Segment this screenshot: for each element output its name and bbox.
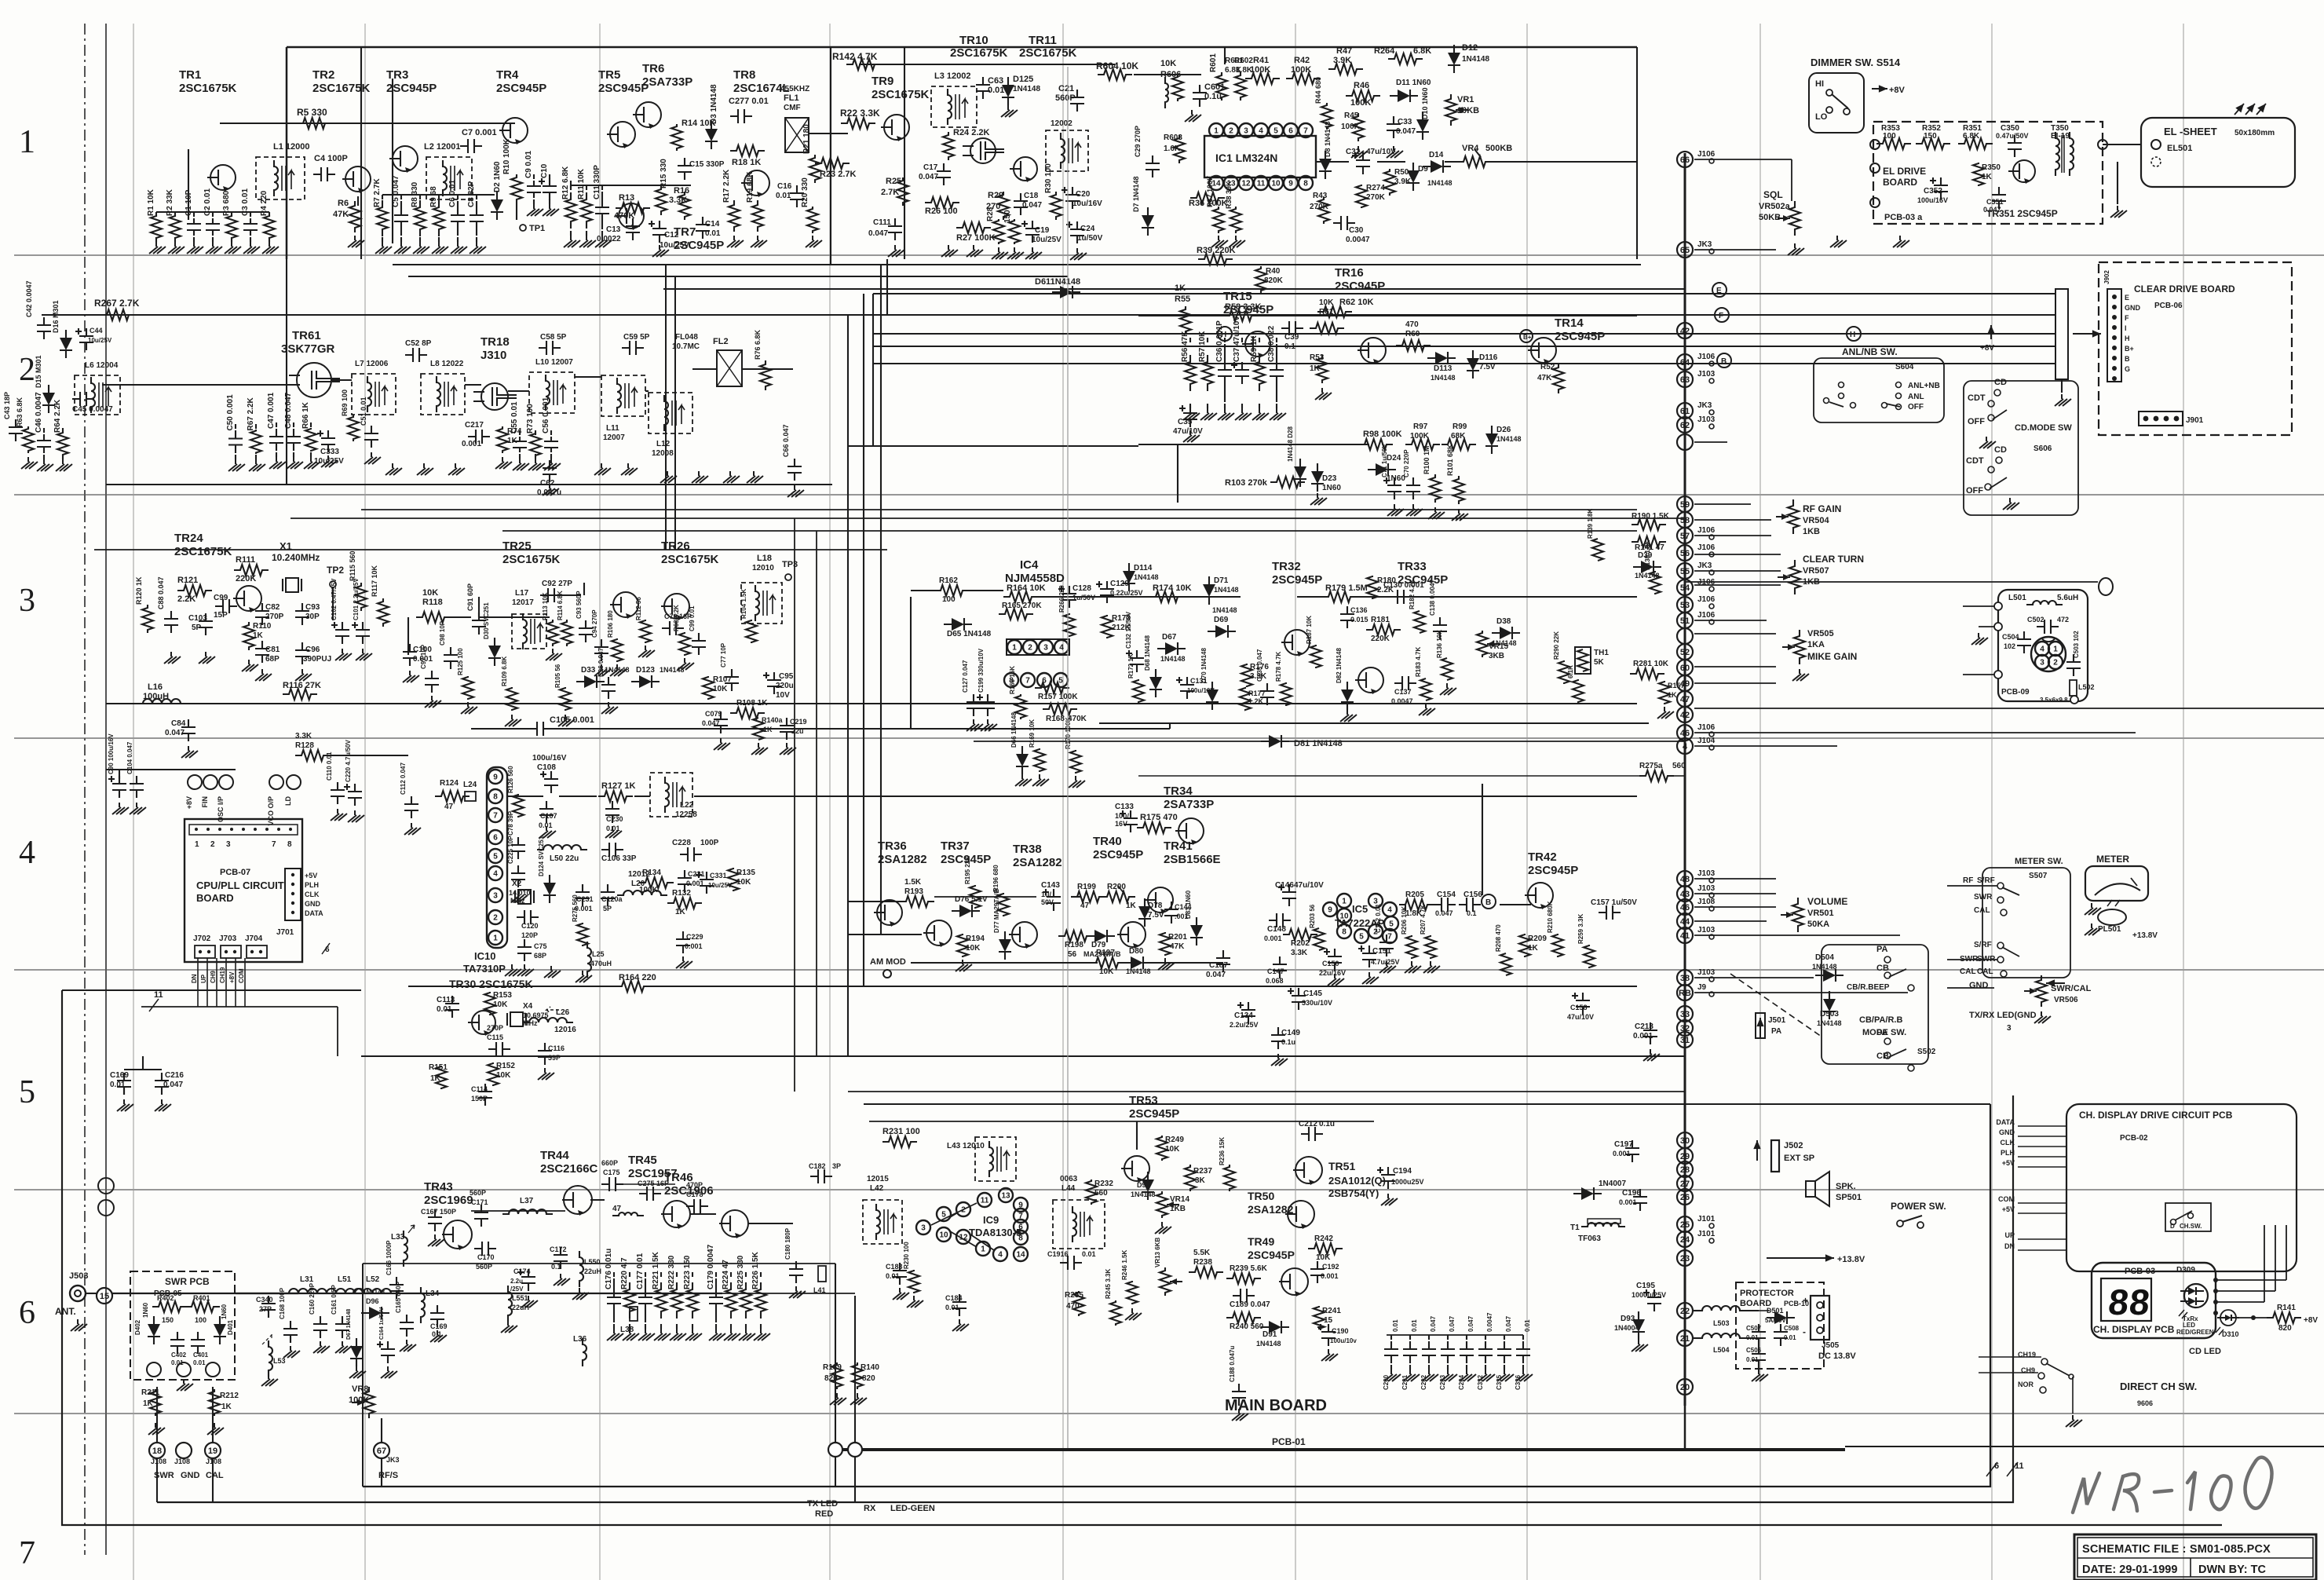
svg-text:L25: L25 (592, 950, 605, 958)
diode D81 (974, 735, 1685, 748)
svg-text:C188 0.047u: C188 0.047u (1229, 1346, 1236, 1382)
transistor TR6 (633, 62, 692, 129)
svg-text:R118: R118 (422, 598, 443, 607)
svg-text:2SC1675K: 2SC1675K (179, 82, 237, 95)
svg-text:+5V: +5V (305, 872, 317, 880)
svg-text:TR38: TR38 (1013, 843, 1042, 856)
zone digit 3 (19, 583, 35, 619)
svg-text:0.001: 0.001 (462, 440, 481, 448)
svg-text:R231 100: R231 100 (882, 1127, 920, 1136)
svg-text:C402: C402 (171, 1351, 187, 1359)
svg-text:R157 100K: R157 100K (1038, 693, 1078, 701)
label TR45b (0, 0, 1, 1)
svg-text:2.2K: 2.2K (177, 594, 195, 604)
svg-text:VR1: VR1 (1457, 95, 1474, 104)
resistor R139 820 (823, 1362, 846, 1405)
svg-text:88: 88 (2107, 1282, 2153, 1322)
svg-text:D70 1N4148: D70 1N4148 (1200, 648, 1208, 683)
resistor R44 (1314, 77, 1332, 130)
zone line (14, 737, 2324, 739)
resistor R602 1.8K (1234, 57, 1253, 101)
svg-text:C114: C114 (471, 1085, 488, 1093)
svg-text:1: 1 (493, 934, 498, 943)
resistor R225 (736, 1255, 755, 1340)
diode D504 (1812, 953, 1843, 982)
svg-text:6.8K: 6.8K (1413, 46, 1431, 56)
coil L2 (424, 142, 472, 199)
svg-text:R162: R162 (939, 576, 958, 585)
svg-text:1N4148: 1N4148 (1431, 374, 1456, 382)
svg-text:C32: C32 (1346, 148, 1361, 156)
diode D7 (1132, 176, 1154, 236)
svg-text:D504: D504 (1815, 953, 1834, 962)
svg-text:R153: R153 (493, 991, 512, 1000)
label PA (1876, 945, 1891, 963)
pot CLEAR TURN (1778, 554, 1864, 594)
svg-text:PLH: PLH (2001, 1149, 2015, 1157)
svg-text:R240 560: R240 560 (1230, 1322, 1264, 1331)
inductor L38 (620, 1307, 638, 1334)
svg-text:100K: 100K (1410, 432, 1430, 441)
svg-text:C46 0.0047: C46 0.0047 (35, 392, 43, 433)
svg-text:100u/16V: 100u/16V (532, 754, 567, 763)
bus H (873, 333, 2055, 335)
connector J902 (2103, 270, 2121, 382)
transistor TR16 (1335, 266, 1386, 364)
svg-text:2SA1282: 2SA1282 (878, 853, 927, 866)
coil L22 (650, 773, 697, 819)
svg-text:B+: B+ (2125, 345, 2134, 353)
svg-text:R28: R28 (986, 207, 995, 221)
resistor R195 22K (964, 856, 981, 909)
node 48 (1677, 869, 1716, 887)
resistor R58 3.3K (1223, 302, 1262, 321)
svg-text:C079: C079 (705, 710, 722, 718)
svg-text:100K: 100K (1350, 98, 1371, 108)
svg-text:C55 0.01: C55 0.01 (510, 401, 519, 433)
svg-text:50KB: 50KB (1759, 213, 1781, 222)
pot VR1 (1445, 94, 1479, 126)
svg-text:C99: C99 (214, 594, 228, 602)
coil L42 (863, 1175, 902, 1244)
svg-text:C336: C336 (1515, 1374, 1522, 1390)
svg-text:CLEAR DRIVE BOARD: CLEAR DRIVE BOARD (2134, 283, 2235, 294)
svg-text:D125: D125 (1013, 75, 1033, 84)
capacitor C170 (474, 1242, 496, 1271)
inductor L31 (283, 1275, 333, 1293)
svg-text:C66 0.047: C66 0.047 (782, 424, 790, 457)
resistor R181 220K (1366, 616, 1401, 643)
resistor R61 10K (1310, 298, 1344, 334)
resistor R601 6.8K (1209, 53, 1244, 101)
svg-text:D78: D78 (1148, 902, 1163, 910)
zone line v (364, 24, 366, 1580)
svg-text:0.001: 0.001 (1619, 1198, 1637, 1206)
capacitor C116 39P (538, 1043, 565, 1080)
svg-text:1000u25V: 1000u25V (1391, 1178, 1424, 1186)
svg-text:64: 64 (1680, 358, 1690, 368)
svg-text:R136 10K: R136 10K (1436, 630, 1443, 658)
svg-text:C213: C213 (1635, 1022, 1653, 1031)
svg-text:R281 10K: R281 10K (1633, 660, 1669, 668)
svg-text:9: 9 (1328, 906, 1332, 915)
svg-text:0.1u: 0.1u (1319, 1120, 1335, 1128)
svg-text:1N4148: 1N4148 (1160, 655, 1186, 663)
svg-text:FIN: FIN (201, 796, 209, 808)
resistor R121 2.2K (177, 576, 212, 604)
pot VOLUME (1781, 896, 1847, 932)
svg-text:560: 560 (1672, 762, 1686, 770)
svg-text:1.6K: 1.6K (1164, 144, 1181, 153)
svg-text:0.047: 0.047 (1430, 1315, 1437, 1332)
ground (1971, 633, 1988, 645)
svg-text:R113 10K: R113 10K (542, 592, 549, 620)
wire dashed (1730, 974, 1822, 1037)
svg-text:C331: C331 (710, 872, 727, 880)
svg-text:1K: 1K (1528, 944, 1539, 953)
resistor R76 6.8K (754, 329, 771, 390)
wire (1316, 161, 1637, 163)
svg-text:CAL: CAL (206, 1471, 224, 1480)
svg-text:7: 7 (1387, 933, 1392, 942)
wire (1099, 723, 1649, 729)
board SWR PCB (130, 1271, 235, 1380)
svg-text:R164 10K: R164 10K (1007, 583, 1046, 593)
svg-text:J101: J101 (1697, 1215, 1716, 1223)
transistor TR2 (312, 68, 371, 193)
label CPU/PLL (196, 880, 284, 904)
node 19 (205, 1443, 221, 1465)
svg-text:SWR: SWR (1974, 893, 1993, 902)
label RX (864, 1504, 935, 1513)
diode D66 (1010, 712, 1032, 786)
svg-text:R274: R274 (1366, 184, 1385, 192)
svg-text:C43 18P: C43 18P (3, 392, 11, 419)
svg-text:C112 0.047: C112 0.047 (400, 763, 407, 795)
svg-text:COM: COM (238, 968, 245, 983)
svg-text:1N4148: 1N4148 (1817, 1019, 1842, 1027)
resistor R29 270 (986, 191, 1009, 220)
resistor R14 10K (671, 119, 715, 151)
svg-text:2SC1675K: 2SC1675K (661, 553, 719, 566)
svg-text:L18: L18 (757, 554, 772, 563)
wire (286, 259, 287, 485)
svg-text:IC4: IC4 (1020, 558, 1039, 572)
mic connector (2031, 637, 2066, 671)
svg-text:3: 3 (19, 583, 35, 619)
resistor R173 (1102, 614, 1131, 638)
wire stub (1694, 682, 1776, 684)
svg-text:VR507: VR507 (1803, 566, 1829, 576)
svg-text:C161 0.5P: C161 0.5P (331, 1285, 338, 1315)
wire (363, 1264, 855, 1293)
label CAL (1974, 887, 2019, 916)
wire stub (1694, 708, 2324, 709)
wire d309 bus (2216, 1225, 2286, 1302)
svg-text:2SC1675K: 2SC1675K (871, 88, 930, 101)
label GND (305, 900, 321, 908)
svg-text:C24: C24 (1080, 225, 1095, 233)
wire stub (1694, 934, 1900, 936)
resistor R116 27K (283, 681, 321, 700)
svg-text:10K: 10K (1319, 298, 1334, 307)
node 33 (1677, 1006, 1693, 1022)
transistor TR9 (871, 75, 930, 141)
svg-text:820K: 820K (1264, 276, 1284, 285)
crystal X4 (507, 1002, 549, 1027)
node 66 (1677, 150, 1716, 167)
svg-text:R67 2.2K: R67 2.2K (247, 397, 255, 430)
wire stub (1694, 584, 1781, 586)
resistor R126 560 (507, 766, 524, 817)
svg-text:3: 3 (2007, 1024, 2012, 1033)
svg-text:R202: R202 (1291, 939, 1310, 948)
svg-text:5.5K: 5.5K (1193, 1249, 1211, 1257)
svg-text:R21 180: R21 180 (802, 124, 811, 154)
bus wire (393, 264, 1641, 265)
svg-text:+5V: +5V (2002, 1159, 2015, 1167)
svg-text:R26 100: R26 100 (925, 207, 958, 216)
resistor R350 1K (1973, 163, 2001, 186)
svg-text:47K: 47K (1170, 942, 1185, 951)
resistor R606 (1160, 59, 1183, 108)
transistor TR14 (1520, 316, 1605, 364)
label pin I (2125, 324, 2127, 332)
wire (358, 195, 495, 206)
pot SWR/CAL (2024, 975, 2092, 1023)
svg-text:C351: C351 (1986, 198, 2004, 206)
capacitor C161 (331, 1285, 352, 1353)
wire (471, 1184, 793, 1223)
svg-text:0.1: 0.1 (1467, 909, 1477, 917)
resistor R43 270K (1310, 192, 1329, 224)
capacitor C37 (1231, 316, 1252, 420)
svg-text:-: - (1803, 1326, 1806, 1337)
svg-text:R73 100: R73 100 (526, 404, 535, 433)
svg-text:D503: D503 (1820, 1010, 1839, 1019)
svg-text:TR24: TR24 (174, 532, 203, 545)
svg-text:DATE: 29-01-1999: DATE: 29-01-1999 (2082, 1564, 2177, 1576)
resistor R55 1K (1175, 283, 1191, 335)
resistor R209 1K (1519, 934, 1547, 957)
resistor R245 3.3K (1105, 1269, 1121, 1326)
diode D114 (1123, 563, 1159, 591)
node 31 (1677, 1032, 1693, 1048)
wire stub (1694, 554, 1781, 555)
wire (1007, 639, 1069, 655)
svg-text:VR14: VR14 (1170, 1195, 1189, 1204)
label S606 (2033, 444, 2052, 453)
capacitor C11 (593, 165, 612, 247)
svg-text:2SA733P: 2SA733P (642, 75, 692, 89)
node 46 (1677, 723, 1716, 741)
ic IC1 LM324N (1204, 136, 1316, 177)
label IC10 (463, 950, 521, 976)
svg-text:R16: R16 (674, 186, 689, 196)
svg-text:59: 59 (1680, 500, 1690, 510)
capacitor C217 (462, 421, 490, 448)
resistor R113 10K (542, 592, 558, 646)
svg-text:0.22u/25V: 0.22u/25V (1110, 589, 1143, 597)
svg-text:1.2K: 1.2K (1248, 697, 1264, 705)
wire sql2 (1694, 249, 1776, 251)
capacitor C112 (400, 763, 421, 835)
svg-text:1: 1 (195, 840, 199, 849)
resistor R206 10K (1401, 906, 1421, 973)
svg-text:TR14: TR14 (1555, 316, 1584, 330)
svg-text:PCB-02: PCB-02 (2120, 1134, 2148, 1143)
label +8V (1872, 85, 1906, 95)
svg-text:100: 100 (942, 595, 956, 604)
svg-text:FL048: FL048 (675, 333, 698, 342)
wire (546, 583, 584, 595)
svg-text:S604: S604 (1895, 363, 1914, 371)
svg-text:4: 4 (1059, 644, 1064, 653)
diode D33 (576, 666, 630, 688)
node 57 (1677, 526, 1716, 543)
svg-text:R220 4.7: R220 4.7 (620, 1257, 629, 1289)
svg-text:CD LED: CD LED (2189, 1347, 2221, 1356)
svg-text:2SC2166C: 2SC2166C (540, 1162, 598, 1176)
svg-text:1N4004: 1N4004 (1614, 1324, 1639, 1332)
switch CB/PA box (1822, 945, 1928, 1064)
resistor R200 1K (1101, 883, 1137, 910)
coil L43 (947, 1137, 1016, 1181)
resistor R212 1K (207, 1389, 239, 1435)
zone line (14, 1189, 2324, 1190)
svg-text:RF GAIN: RF GAIN (1803, 503, 1841, 514)
resistor R110 1K (243, 622, 272, 650)
svg-text:3.9K: 3.9K (1333, 56, 1351, 65)
svg-text:J703: J703 (219, 934, 237, 943)
svg-text:L504: L504 (1713, 1346, 1730, 1354)
svg-text:C84: C84 (171, 719, 186, 728)
capacitor C55 (510, 401, 529, 470)
svg-text:L22: L22 (680, 801, 694, 810)
capacitor C13 (597, 218, 640, 243)
resistor R11 (577, 168, 596, 247)
svg-text:D124 SVC251: D124 SVC251 (538, 836, 545, 876)
capacitor C71 (1381, 444, 1404, 516)
wire (2055, 379, 2071, 406)
svg-text:C177 0.01: C177 0.01 (636, 1253, 645, 1289)
ic IC4 pins bottom (1004, 673, 1068, 687)
svg-text:C16: C16 (777, 182, 792, 191)
svg-text:10u/25V: 10u/25V (88, 337, 112, 344)
capacitor C152 (1375, 904, 1396, 973)
capacitor C92 27P (540, 580, 572, 602)
svg-text:8: 8 (1342, 928, 1347, 937)
capacitor C45 (72, 392, 113, 414)
svg-text:RX: RX (864, 1504, 876, 1513)
resistor R46 100K (1346, 81, 1380, 108)
svg-text:18: 18 (152, 1447, 162, 1456)
resistor R255 470 (1065, 1291, 1084, 1316)
label 11 (149, 990, 163, 1011)
svg-text:9: 9 (493, 774, 498, 782)
svg-text:R230 100: R230 100 (903, 1242, 910, 1269)
label OFF (1908, 403, 1924, 411)
svg-text:PCB-07: PCB-07 (220, 868, 250, 877)
svg-text:2SC945P: 2SC945P (598, 82, 649, 95)
svg-text:3.9K: 3.9K (1394, 177, 1412, 186)
svg-text:C44: C44 (90, 327, 103, 335)
svg-text:DN: DN (2004, 1242, 2015, 1250)
diode D12 (1448, 43, 1489, 73)
svg-text:R53: R53 (1310, 353, 1325, 362)
svg-text:C133: C133 (1115, 803, 1134, 811)
inductor L503 (1696, 1306, 1746, 1327)
svg-text:12012: 12012 (628, 870, 650, 879)
svg-text:E: E (1716, 287, 1722, 295)
resistor R224 (722, 1260, 740, 1340)
svg-text:C8 82P: C8 82P (467, 181, 476, 207)
svg-text:R69 100: R69 100 (341, 390, 349, 416)
label +8V r (1980, 325, 1995, 353)
node B (1482, 894, 1496, 909)
svg-text:R17 2.2K: R17 2.2K (722, 169, 731, 203)
capacitor C120 120P (517, 910, 539, 939)
transistor TR37 (923, 839, 991, 947)
svg-text:1K: 1K (1310, 364, 1321, 373)
svg-text:820: 820 (862, 1374, 875, 1383)
bus wire (290, 518, 1685, 519)
svg-text:1K: 1K (1175, 283, 1186, 293)
svg-text:R10 100K: R10 100K (502, 138, 511, 174)
resistor R351 6.8K (1958, 124, 1993, 149)
svg-text:6: 6 (493, 834, 498, 843)
svg-text:100K: 100K (1341, 123, 1361, 131)
capacitor C56 (542, 397, 561, 470)
svg-text:0.01: 0.01 (110, 1081, 126, 1089)
capacitor C507 (1746, 1324, 1766, 1346)
svg-text:C47 0.001: C47 0.001 (267, 392, 276, 429)
node mid (174, 1443, 192, 1465)
capacitor C192 (1310, 1261, 1339, 1283)
svg-text:10K: 10K (736, 878, 751, 887)
connector J503 ANT (55, 1271, 97, 1331)
svg-text:B: B (1721, 357, 1727, 366)
svg-text:R23 2.7K: R23 2.7K (820, 170, 857, 179)
svg-text:C167: C167 (421, 1208, 438, 1216)
svg-text:DC 13.8V: DC 13.8V (1818, 1351, 1856, 1361)
svg-text:J103: J103 (1697, 415, 1716, 424)
svg-text:+8V: +8V (228, 971, 236, 983)
svg-text:10KB: 10KB (1457, 106, 1479, 115)
svg-text:7: 7 (272, 840, 276, 849)
svg-text:DIRECT CH SW.: DIRECT CH SW. (2120, 1381, 2197, 1392)
svg-text:150: 150 (1003, 210, 1012, 223)
node B (1717, 353, 1731, 368)
display 88 (2101, 1278, 2153, 1322)
ground (164, 652, 312, 681)
svg-text:8: 8 (1303, 180, 1308, 188)
svg-text:J104: J104 (1697, 737, 1716, 745)
svg-text:C94 270P: C94 270P (591, 609, 598, 638)
svg-text:+13.8V: +13.8V (1837, 1255, 1865, 1264)
svg-text:C1 10P: C1 10P (185, 189, 193, 216)
svg-text:J702: J702 (193, 934, 211, 943)
svg-text:R6: R6 (338, 199, 349, 208)
label SWR (1974, 893, 2004, 903)
led D309 (2176, 1266, 2208, 1318)
resistor R36 100K (1189, 192, 1228, 208)
capacitor C340 (256, 1296, 276, 1318)
wire PLH (2001, 1149, 2066, 1157)
zone line v (1759, 24, 1761, 1580)
svg-text:12007: 12007 (603, 433, 625, 442)
resistor R259 3.3K (1577, 914, 1595, 968)
